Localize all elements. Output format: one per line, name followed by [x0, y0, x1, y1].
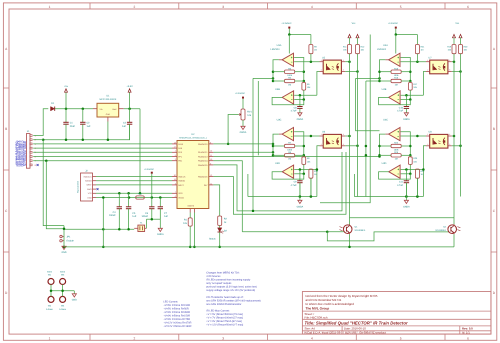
frame column ticks and numbers	[89, 3, 91, 340]
U3C output stub	[279, 133, 282, 135]
U2 pin BOOT0	[189, 209, 191, 213]
U4B input wires	[401, 94, 424, 96]
svg-text:+3.3VADC: +3.3VADC	[281, 22, 292, 25]
U3D feedback loop	[272, 172, 304, 179]
op-amp U4C	[389, 128, 400, 141]
U3D input wires	[294, 169, 317, 171]
svg-text:PA5/ADC5: PA5/ADC5	[198, 164, 208, 167]
svg-text:Tag-Connect: Tag-Connect	[77, 181, 80, 193]
svg-text:PA1/ADC1: PA1/ADC1	[198, 151, 208, 154]
svg-text:KiCad E.D.A. kicad (2015-06-0: KiCad E.D.A. kicad (2015-06-07 BZR 5697,…	[305, 331, 386, 335]
microcontroller U2	[177, 141, 209, 209]
IR emitter W1	[48, 279, 54, 285]
svg-text:1M: 1M	[288, 83, 291, 86]
U8 pin stubs	[426, 135, 430, 137]
U5 collector wire	[345, 61, 349, 63]
svg-text:4.7uF: 4.7uF	[397, 110, 403, 113]
svg-text:22uF: 22uF	[70, 125, 76, 128]
svg-text:PA0/ADC0: PA0/ADC0	[198, 143, 208, 146]
emitter rail channel 1/3	[357, 54, 359, 197]
svg-text:B: B	[5, 127, 7, 131]
U4C input wires	[401, 132, 411, 156]
svg-text:13: 13	[210, 174, 212, 177]
U2 pin SWCLK	[172, 176, 177, 178]
U5 cathode return	[317, 72, 320, 96]
J1 pin7 wire	[33, 160, 172, 162]
svg-text:2: 2	[427, 69, 428, 72]
svg-text:8: 8	[210, 141, 211, 144]
diode D1	[51, 107, 55, 111]
Q1 sense row	[242, 231, 327, 233]
capacitor C6	[151, 198, 153, 207]
resistor R8	[285, 154, 295, 157]
resistor R7	[285, 144, 295, 147]
analog ground rail channel 3	[248, 196, 317, 198]
svg-text:NRST: NRST	[178, 184, 184, 187]
IR emitter W3	[60, 279, 66, 285]
capacitor C5	[128, 193, 130, 207]
ferrite FB1	[136, 196, 144, 199]
svg-text:to whom due credit is acknowle: to whom due credit is acknowledged	[306, 302, 355, 306]
U2 pin PF1	[172, 156, 177, 158]
svg-text:1M: 1M	[395, 158, 398, 161]
resistor R22	[416, 168, 418, 171]
C9 tail	[299, 183, 301, 197]
channel 2 input row extension	[356, 77, 380, 79]
U2 pin PF0	[172, 151, 177, 153]
svg-text:5: 5	[175, 154, 176, 157]
ground rail under regulator	[43, 124, 129, 140]
svg-text:LMV324: LMV324	[271, 48, 281, 51]
svg-text:12: 12	[210, 150, 212, 153]
ADC1 row wire to channel 3	[213, 151, 273, 153]
U2 pin PA3/ADC3	[209, 156, 214, 158]
svg-text:1M: 1M	[314, 49, 317, 52]
U7 cathode return	[423, 72, 426, 96]
U2 pin PA10	[172, 143, 177, 145]
resistor R9	[310, 35, 312, 45]
ADC4 row wire to Q1	[213, 161, 242, 232]
svg-text:C10: C10	[399, 106, 404, 109]
U4A input wires	[401, 58, 411, 82]
svg-text:1M: 1M	[288, 158, 291, 161]
resistor R17	[409, 81, 411, 83]
svg-text:5mm: 5mm	[60, 271, 65, 274]
svg-text:GNDA: GNDA	[297, 118, 304, 121]
svg-text:U3D: U3D	[275, 162, 280, 165]
phototransistor Q2	[448, 225, 457, 234]
ground symbol GNDA under RV1	[241, 126, 245, 129]
U8 emitter wire	[452, 145, 461, 147]
svg-text:1: 1	[49, 5, 51, 9]
op-amp U4A	[389, 53, 400, 66]
svg-text:VTG: VTG	[88, 192, 92, 195]
svg-text:1: 1	[427, 59, 428, 62]
svg-text:SWDCLK: SWDCLK	[84, 175, 93, 178]
wire U1 out to +3.3V node	[124, 108, 140, 110]
capacitor C3	[129, 109, 131, 123]
U5 emitter wire	[345, 71, 357, 73]
optocoupler U6	[323, 134, 341, 148]
jumper JP1 Enable	[60, 235, 62, 237]
svg-text:19: 19	[174, 178, 176, 181]
U1 output pin stub	[119, 108, 124, 110]
J2 to U2 programming wires	[96, 176, 172, 178]
svg-text:SWDIO: SWDIO	[85, 180, 92, 183]
R13 tail	[310, 178, 312, 196]
svg-text:3: 3	[222, 337, 224, 341]
frame row ticks and letters	[3, 87, 496, 89]
svg-text:PA4/ADC4: PA4/ADC4	[198, 160, 208, 163]
svg-text:Status: Status	[209, 237, 216, 240]
svg-text:Vout: Vout	[112, 108, 117, 111]
svg-text:17: 17	[174, 146, 176, 149]
resistor R19	[452, 45, 456, 54]
C11 tail	[405, 183, 407, 197]
svg-text:+V = 12V (Rmax=50mA [Y7 max]: +V = 12V (Rmax=50mA [Y7 max]	[206, 323, 243, 326]
power rail to pullup	[396, 34, 418, 36]
ground symbol GND	[62, 246, 66, 249]
C9 to analog ground rail	[299, 183, 301, 197]
svg-text:9: 9	[210, 162, 211, 165]
resistor R6	[303, 155, 305, 157]
U1 ground pin stub	[107, 117, 109, 122]
svg-text:5mm: 5mm	[47, 271, 52, 274]
U6 pin stubs	[320, 135, 324, 137]
ADC0 row wire	[213, 143, 273, 145]
U3B input wires	[294, 94, 317, 96]
U4C output stub	[385, 133, 388, 135]
svg-text:RV1: RV1	[247, 110, 252, 113]
svg-text:4: 4	[175, 150, 176, 153]
channel 1 input row extension	[253, 77, 273, 79]
svg-text:1: 1	[175, 191, 176, 194]
svg-text:2: 2	[321, 69, 322, 72]
svg-text:+3.3V: +3.3V	[126, 85, 133, 88]
resistor R16	[391, 79, 401, 82]
resistor R26	[409, 155, 411, 157]
svg-text:1uF: 1uF	[122, 125, 127, 128]
U8 cathode return	[423, 146, 426, 170]
svg-text:4: 4	[449, 133, 450, 136]
wire D1 to regulator input rail	[55, 108, 93, 110]
svg-text:GND: GND	[87, 196, 92, 199]
collector rail channel 2/4 to Q2	[453, 54, 455, 225]
GNDA drop channel 3	[299, 197, 301, 201]
svg-text:2: 2	[321, 143, 322, 146]
svg-text:4.7uF: 4.7uF	[397, 184, 403, 187]
svg-text:no connection (spare): no connection (spare)	[24, 141, 27, 166]
op-amp U3A	[282, 53, 293, 66]
svg-text:GNDA: GNDA	[297, 206, 304, 209]
svg-text:1uF: 1uF	[132, 215, 137, 218]
svg-text:NRST: NRST	[86, 184, 92, 187]
svg-text:18: 18	[174, 141, 176, 144]
svg-text:GNDA: GNDA	[403, 206, 410, 209]
svg-text:1: 1	[321, 133, 322, 136]
svg-text:VDDA: VDDA	[178, 196, 184, 199]
U2 pin SWDIO	[172, 180, 177, 182]
U2 pin PA5/ADC5	[209, 164, 214, 166]
svg-text:5.0mm: 5.0mm	[46, 308, 53, 311]
svg-text:Title: Simplified Quad "HECTOR: Title: Simplified Quad "HECTOR" IR Train…	[305, 320, 408, 325]
ground rail bottom-left	[64, 228, 134, 230]
inter-column rail to Q2 feed	[350, 217, 455, 219]
+3.3V power flag	[129, 92, 131, 109]
U2 pin PA6/ADC6	[209, 176, 214, 178]
op-amp power pin wire	[288, 35, 290, 54]
svg-text:2: 2	[134, 337, 136, 341]
ADC5 drop and route to channel 3 opto	[213, 152, 342, 211]
resistor R20	[459, 45, 463, 54]
U7 collector wire	[452, 61, 454, 63]
U2 pin PA1/ADC1	[209, 151, 214, 153]
route vertical to channel 1 left	[252, 78, 254, 211]
RV1 bottom to analog ground	[242, 120, 244, 126]
U8 collector wire	[452, 135, 454, 137]
svg-text:GND: GND	[106, 113, 111, 116]
crystal Y1	[138, 225, 145, 231]
svg-text:B: B	[493, 127, 495, 131]
title block frame	[302, 292, 491, 335]
svg-text:5.0mm: 5.0mm	[59, 308, 66, 311]
J1 pin2 drop to GND area	[43, 140, 64, 226]
svg-text:GNDA: GNDA	[240, 131, 247, 134]
J1 pin2 wire	[33, 139, 43, 141]
U3A output feedback vertical	[273, 60, 279, 81]
R22 tail	[416, 178, 418, 196]
svg-text:PA6/ADC6: PA6/ADC6	[198, 175, 208, 178]
VDD distribution row	[96, 192, 172, 194]
svg-text:5: 5	[400, 5, 402, 9]
svg-text:U4D: U4D	[382, 162, 387, 165]
decoupling return vertical	[102, 198, 104, 230]
svg-text:supply voltage range 4.5-12V (: supply voltage range 4.5-12V (5V preferr…	[206, 289, 255, 292]
U5 pin stubs	[320, 61, 324, 63]
U7 pin stubs	[426, 61, 430, 63]
resistor R11	[348, 45, 352, 54]
resistor R12	[356, 45, 360, 54]
capacitor C10	[405, 95, 407, 106]
svg-text:6: 6	[175, 195, 176, 198]
resistor R15	[391, 70, 401, 73]
U4D input wires	[401, 169, 424, 171]
regulator U1	[97, 103, 119, 117]
collector rail channel 1/3 to Q1	[349, 54, 351, 225]
U6 collector wire	[345, 135, 349, 137]
capacitor C9	[299, 170, 301, 181]
svg-text:3: 3	[175, 158, 176, 161]
op-amp U3C	[282, 128, 293, 141]
+5v power flag	[65, 92, 67, 109]
svg-text:3: 3	[449, 143, 450, 146]
svg-text:Id: 1/1: Id: 1/1	[462, 331, 470, 335]
connector J1	[26, 134, 30, 169]
svg-text:SFH309FA: SFH309FA	[435, 229, 446, 232]
resistor R2	[213, 185, 219, 216]
U4A output feedback vertical	[380, 60, 386, 81]
U2 pin PA0/ADC0	[209, 143, 214, 145]
svg-text:1: 1	[427, 133, 428, 136]
wire VSS to ground rail	[193, 213, 195, 247]
U2 pin NRST	[172, 184, 177, 186]
GNDA drop channel 4	[405, 197, 407, 201]
svg-text:1M: 1M	[395, 83, 398, 86]
op-amp U3D	[282, 165, 293, 178]
wire J1 pin1 riser to +5v rail	[33, 109, 48, 136]
svg-text:MCP1700-3302E: MCP1700-3302E	[100, 98, 117, 101]
svg-text:4: 4	[343, 133, 344, 136]
U4B feedback loop	[379, 97, 411, 104]
svg-text:BOOT0: BOOT0	[188, 205, 194, 208]
svg-text:6: 6	[467, 5, 469, 9]
svg-text:1uF: 1uF	[87, 125, 92, 128]
capacitor C8	[299, 95, 301, 106]
ground GNDA under C8	[299, 108, 301, 112]
resistor R1	[189, 213, 191, 218]
+3.3V feed dropper to VDD row	[139, 109, 141, 194]
VDDA filter row	[96, 197, 172, 199]
capacitor C11	[405, 170, 407, 181]
capacitor C1	[65, 109, 67, 123]
U2 pin PA4/ADC4	[209, 160, 214, 162]
channel 4 feed vertical	[365, 81, 367, 197]
analog ground tie	[147, 218, 161, 220]
U3A input wires	[294, 58, 304, 82]
svg-text:4: 4	[311, 5, 313, 9]
potentiometer RV1	[241, 109, 245, 120]
W common wire	[51, 290, 74, 292]
svg-text:3: 3	[222, 5, 224, 9]
resistor R13	[310, 168, 312, 171]
svg-text:3: 3	[343, 143, 344, 146]
U2 pin VSS	[193, 209, 195, 213]
ground GNDA under C10	[405, 108, 407, 112]
svg-text:GND: GND	[61, 251, 66, 254]
svg-text:GNDA: GNDA	[157, 233, 164, 236]
svg-text:+3.3VADC: +3.3VADC	[388, 22, 399, 25]
op-amp U4B	[389, 91, 400, 104]
svg-text:U4A: U4A	[383, 44, 388, 47]
U3B feedback loop	[272, 97, 304, 104]
U7 emitter wire	[452, 71, 461, 73]
svg-text:SWO: SWO	[87, 188, 92, 191]
svg-text:U3A: U3A	[277, 44, 282, 47]
U6 cathode return	[317, 146, 320, 170]
svg-text:U3B: U3B	[275, 88, 280, 91]
U4D feedback loop	[379, 172, 411, 179]
J1 pin7 drop to GND area	[46, 161, 64, 229]
op-amp U3B	[282, 91, 293, 104]
W series wires	[50, 285, 52, 297]
svg-text:4.7uF: 4.7uF	[291, 184, 297, 187]
svg-text:100nF: 100nF	[109, 214, 116, 217]
U2 pin VDD	[172, 192, 177, 194]
svg-text:14: 14	[210, 182, 212, 185]
Q2 emitter to ground rail end	[453, 234, 455, 247]
resistor R24	[391, 144, 401, 147]
channel 4 cathode line extension	[422, 170, 424, 197]
capacitor C7	[159, 198, 161, 207]
svg-text:2: 2	[175, 182, 176, 185]
svg-text:1uF: 1uF	[164, 215, 169, 218]
channel 4 rail left riser	[353, 174, 355, 197]
U3C input wires	[294, 132, 304, 156]
svg-text:4: 4	[343, 59, 344, 62]
optocoupler U5	[323, 60, 341, 74]
channel 2 feed vertical	[356, 78, 380, 130]
optocoupler U8	[430, 134, 448, 148]
ground symbol GND for W leds	[72, 294, 76, 297]
GND vertical at left	[63, 226, 65, 247]
svg-text:+3.3VADC: +3.3VADC	[235, 92, 246, 95]
svg-text:1: 1	[49, 337, 51, 341]
no-connect cross pin 8	[37, 164, 39, 166]
resistor R4	[285, 79, 295, 82]
phototransistor Q1	[343, 225, 352, 234]
svg-text:STM32F0xxK_/STM32L0xxK_x: STM32F0xxK_/STM32L0xxK_x	[179, 137, 207, 140]
PA6 drop and route to channel 3 opto	[213, 152, 346, 214]
U1 input pin stub	[93, 108, 97, 110]
IR emitter W4	[60, 296, 66, 302]
svg-text:U4C: U4C	[383, 119, 388, 122]
svg-text:SWCLK: SWCLK	[178, 175, 186, 178]
LED D2 Status	[219, 226, 221, 228]
svg-text:2: 2	[427, 143, 428, 146]
svg-text:10: 10	[210, 158, 212, 161]
svg-text:Enable: Enable	[67, 240, 75, 243]
op-amp U4D	[389, 165, 400, 178]
svg-text:U3C: U3C	[277, 119, 282, 122]
Q1 emitter to ground rail	[349, 234, 351, 247]
connector J2 TagConnect	[81, 173, 93, 201]
main ground rail	[64, 246, 454, 248]
IR emitter W2	[48, 296, 54, 302]
svg-text:5: 5	[400, 337, 402, 341]
capacitor C2	[82, 109, 84, 123]
RV1 wiper wire to ADC row	[228, 115, 239, 144]
J1 bus wires pins 3-6	[33, 143, 172, 145]
emitter rail channel 2/4	[460, 54, 462, 197]
svg-text:1M: 1M	[421, 49, 424, 52]
svg-text:VDD: VDD	[178, 192, 183, 195]
svg-text:11: 11	[210, 154, 212, 157]
svg-text:4: 4	[449, 59, 450, 62]
resistor R21	[416, 35, 418, 45]
svg-text:PA3/ADC3: PA3/ADC3	[198, 155, 208, 158]
capacitor C4	[118, 193, 120, 207]
svg-text:File: HECTOR.sch: File: HECTOR.sch	[305, 316, 328, 320]
svg-text:100nF: 100nF	[141, 215, 148, 218]
ADC3 row wire to channel 4	[213, 156, 379, 158]
svg-text:U4B: U4B	[382, 88, 387, 91]
svg-text:20: 20	[174, 174, 176, 177]
svg-text:+3.3VADC: +3.3VADC	[144, 168, 155, 171]
resistor R5	[303, 81, 305, 83]
U4C output feedback vertical	[380, 134, 386, 155]
optocoupler U7	[430, 60, 448, 74]
U3C output feedback vertical	[273, 134, 279, 155]
svg-text:one SFH 309FA Phototransistor: one SFH 309FA Phototransistor	[206, 303, 241, 306]
resistor R3	[285, 70, 295, 73]
U6 emitter wire	[345, 145, 357, 147]
svg-text:6: 6	[467, 337, 469, 341]
C11 to analog ground rail	[405, 183, 407, 197]
svg-text:LMV324: LMV324	[377, 48, 387, 51]
long route vertical from power rail	[320, 35, 370, 203]
svg-text:4.7uF: 4.7uF	[291, 110, 297, 113]
power rail to pullup	[289, 34, 311, 36]
